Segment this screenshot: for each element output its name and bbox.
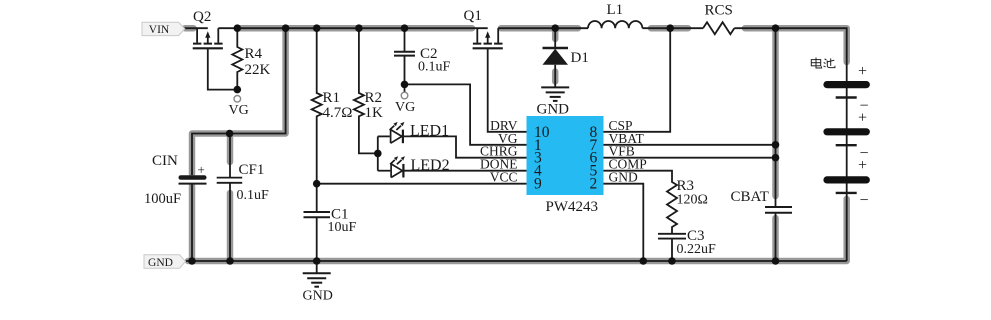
svg-text:22K: 22K xyxy=(245,62,271,78)
svg-text:GND: GND xyxy=(303,289,333,304)
svg-text:10uF: 10uF xyxy=(328,220,357,235)
svg-text:Q2: Q2 xyxy=(193,9,211,25)
svg-text:+: + xyxy=(858,63,867,80)
svg-text:+: + xyxy=(858,157,867,174)
svg-text:GND: GND xyxy=(609,170,638,185)
svg-text:GND: GND xyxy=(148,257,173,269)
svg-text:GND: GND xyxy=(537,102,570,118)
svg-text:VCC: VCC xyxy=(490,170,518,185)
svg-text:VG: VG xyxy=(229,103,249,118)
svg-text:CIN: CIN xyxy=(152,153,178,169)
svg-text:0.1uF: 0.1uF xyxy=(418,60,451,75)
svg-text:1K: 1K xyxy=(365,105,384,121)
svg-text:R4: R4 xyxy=(245,46,263,62)
svg-text:+: + xyxy=(198,162,205,177)
svg-text:VG: VG xyxy=(395,100,415,115)
svg-text:−: − xyxy=(859,192,868,209)
svg-text:LED1: LED1 xyxy=(410,123,449,140)
svg-text:Q1: Q1 xyxy=(464,8,482,24)
svg-text:100uF: 100uF xyxy=(144,191,181,207)
svg-text:D1: D1 xyxy=(571,50,589,66)
svg-text:120Ω: 120Ω xyxy=(677,193,708,208)
svg-text:2: 2 xyxy=(590,176,598,193)
svg-text:0.22uF: 0.22uF xyxy=(677,242,717,257)
svg-text:PW4243: PW4243 xyxy=(546,199,599,215)
svg-text:VIN: VIN xyxy=(149,24,170,36)
svg-text:CF1: CF1 xyxy=(239,162,265,178)
svg-text:0.1uF: 0.1uF xyxy=(237,188,270,203)
svg-text:9: 9 xyxy=(534,176,542,193)
svg-text:LED2: LED2 xyxy=(411,157,450,174)
svg-text:R2: R2 xyxy=(365,90,383,106)
svg-text:4.7Ω: 4.7Ω xyxy=(323,105,353,121)
svg-text:L1: L1 xyxy=(607,2,624,18)
svg-text:RCS: RCS xyxy=(705,3,733,19)
svg-text:+: + xyxy=(858,110,867,127)
svg-text:CBAT: CBAT xyxy=(731,189,769,205)
svg-text:R1: R1 xyxy=(323,90,341,106)
